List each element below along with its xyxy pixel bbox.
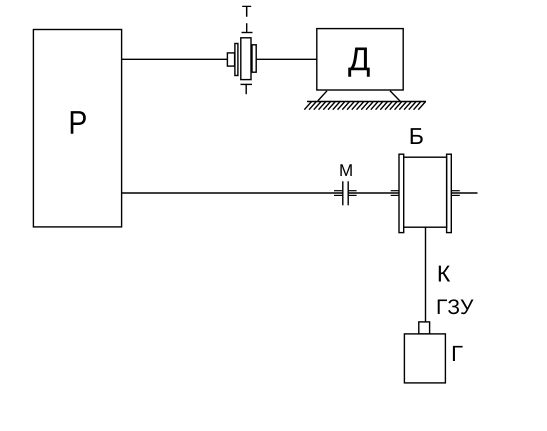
drum B body [404, 157, 447, 227]
coupling T left flange thin rect [235, 44, 238, 76]
centerline stem above coupling [246, 23, 248, 32]
centerline tick below coupling [241, 83, 253, 85]
coupling T central body rect [241, 38, 251, 80]
label P [71, 111, 86, 134]
ground hatching [304, 102, 425, 110]
wire shaft1 from P to coupling T [122, 58, 227, 60]
motor left support leg [318, 91, 327, 101]
label G [453, 346, 463, 361]
coupling M upper tick right [348, 190, 356, 192]
centerline tick above coupling [242, 32, 253, 34]
coupling M right bar [347, 181, 349, 205]
label GZU [438, 300, 447, 314]
label T (torque) [242, 6, 251, 17]
box D (motor) [317, 29, 403, 90]
hook rect on load [419, 322, 430, 334]
coupling M upper tick left [334, 190, 343, 192]
rope K from drum to load [425, 227, 427, 324]
coupling M lower tick left [334, 194, 343, 196]
drum bearing upper tick right [451, 190, 460, 192]
wire shaft2 from coupling M to drum B [348, 192, 399, 194]
motor right support leg [390, 91, 400, 101]
drum bearing lower tick left [391, 194, 399, 196]
box G (load) [404, 334, 445, 383]
wire shaft2 from P to coupling M [122, 192, 343, 194]
label B [411, 128, 423, 144]
wire shaft2 right stub [451, 192, 477, 194]
drum bearing upper tick left [391, 190, 399, 192]
drum B left flange [399, 154, 404, 232]
drum B right flange [447, 154, 452, 232]
drum bearing lower tick right [451, 194, 460, 196]
coupling T hub left small rect [227, 53, 234, 66]
wire shaft1 from coupling T to motor D [256, 58, 317, 60]
coupling T right flange rect [252, 45, 256, 72]
label D [348, 47, 369, 76]
ground line [307, 101, 426, 103]
box P (reducer) [33, 30, 121, 227]
coupling M lower tick right [348, 194, 356, 196]
centerline stem below coupling [245, 84, 247, 94]
label M [340, 164, 351, 176]
label K [439, 266, 450, 282]
coupling M left bar [342, 181, 344, 205]
